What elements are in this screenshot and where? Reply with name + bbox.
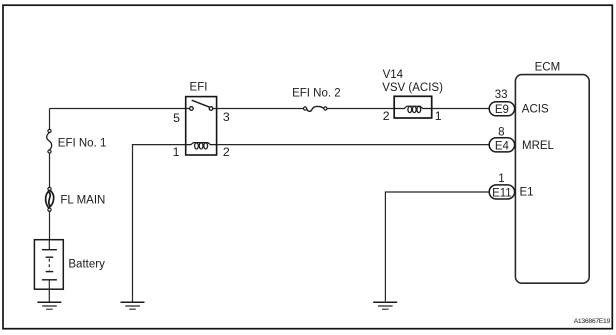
battery	[34, 240, 63, 290]
ground (battery)	[37, 302, 61, 309]
VSV coil	[394, 106, 432, 112]
svg-text:33: 33	[495, 89, 508, 101]
wire ECM E11 to ground	[385, 192, 489, 301]
connector E9	[489, 102, 514, 116]
svg-text:5: 5	[173, 111, 180, 125]
svg-text:VSV (ACIS): VSV (ACIS)	[382, 82, 443, 94]
svg-text:E11: E11	[492, 187, 512, 199]
fuse EFI No. 2	[304, 106, 328, 111]
svg-text:FL MAIN: FL MAIN	[60, 194, 105, 206]
VSV V14 box	[394, 96, 432, 118]
wire VSV to ECM E9	[432, 108, 490, 110]
wire left vertical lower	[49, 211, 51, 239]
ECM box	[515, 75, 589, 284]
svg-text:3: 3	[223, 110, 230, 124]
svg-text:V14: V14	[383, 69, 404, 81]
wire battery to ground	[48, 289, 50, 302]
wire fuse to VSV	[327, 108, 394, 110]
svg-text:1: 1	[173, 145, 180, 159]
ground (relay)	[121, 302, 145, 309]
svg-text:A136867E19: A136867E19	[574, 318, 611, 325]
svg-text:E9: E9	[495, 104, 509, 116]
relay switch contacts	[190, 100, 213, 110]
wire relay pin2 to ECM E4	[217, 144, 490, 146]
wire left vertical upper	[49, 109, 51, 130]
svg-text:E4: E4	[495, 140, 510, 152]
svg-text:ACIS: ACIS	[522, 104, 549, 116]
svg-text:ECM: ECM	[535, 61, 561, 73]
relay EFI box	[186, 97, 217, 155]
svg-text:MREL: MREL	[522, 140, 555, 152]
fusible link FL MAIN	[46, 187, 54, 211]
wire relay pin3 to fuse EFI No. 2	[213, 108, 304, 110]
svg-text:EFI No. 1: EFI No. 1	[58, 137, 107, 149]
svg-text:1: 1	[435, 109, 442, 123]
wire left vertical middle	[49, 153, 51, 187]
wire relay pin1 to ground	[133, 145, 186, 302]
svg-text:EFI: EFI	[190, 82, 208, 94]
connector E4	[489, 138, 514, 152]
relay coil	[186, 143, 217, 149]
svg-text:2: 2	[223, 145, 230, 159]
wire battery B+ top horizontal	[50, 108, 190, 110]
svg-text:Battery: Battery	[68, 259, 105, 271]
svg-text:1: 1	[498, 173, 504, 185]
svg-text:EFI No. 2: EFI No. 2	[292, 88, 341, 100]
svg-text:2: 2	[383, 109, 390, 123]
fuse EFI No. 1	[47, 129, 52, 153]
svg-text:E1: E1	[520, 187, 534, 199]
svg-text:8: 8	[498, 127, 504, 139]
connector E11	[489, 185, 514, 199]
ground (E1)	[373, 302, 397, 309]
